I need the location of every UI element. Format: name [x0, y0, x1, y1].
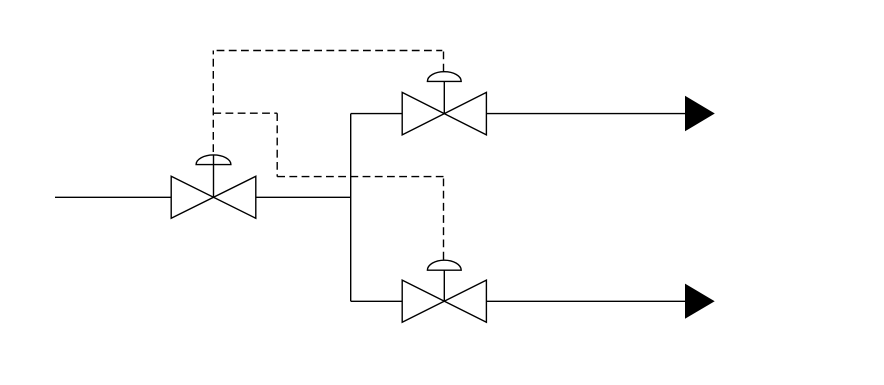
actuator stem V2 — [443, 81, 445, 113]
signal line B leg 1: branch from A, horizontal (dashed) — [213, 112, 277, 114]
signal line B leg 3: horizontal run crossing header (dashed) — [277, 176, 443, 178]
signal line A leg 2: horizontal top run (dashed) — [217, 50, 443, 52]
valve V1 body — [171, 176, 256, 218]
wire: header to V3 — [351, 300, 403, 302]
signal line B leg 2: vertical drop (dashed) — [276, 113, 278, 176]
actuator stem V3 — [443, 270, 445, 301]
signal line A leg 3: down to V2 actuator (dashed) — [443, 51, 445, 72]
actuator stem V1 — [213, 155, 215, 198]
wire: V3 to outlet arrow — [486, 300, 686, 302]
arrow: bottom outlet — [685, 284, 715, 319]
valve V3 body — [402, 280, 486, 322]
wire: V2 to outlet arrow — [486, 113, 686, 115]
actuator dome V3 — [427, 260, 461, 270]
wire: vertical header — [350, 114, 352, 302]
actuator dome V2 — [427, 72, 461, 82]
wire: inlet pipe — [55, 196, 172, 198]
signal line B leg 4: down to V3 actuator (dashed) — [443, 177, 445, 260]
wire: header to V2 — [351, 113, 403, 115]
valve V2 body — [402, 92, 486, 134]
signal line A leg 1: up from V1 actuator (dashed) — [212, 51, 214, 153]
arrow: top outlet — [685, 96, 715, 132]
wire: pipe from V1 to header — [256, 196, 351, 198]
actuator dome V1 — [196, 155, 231, 165]
